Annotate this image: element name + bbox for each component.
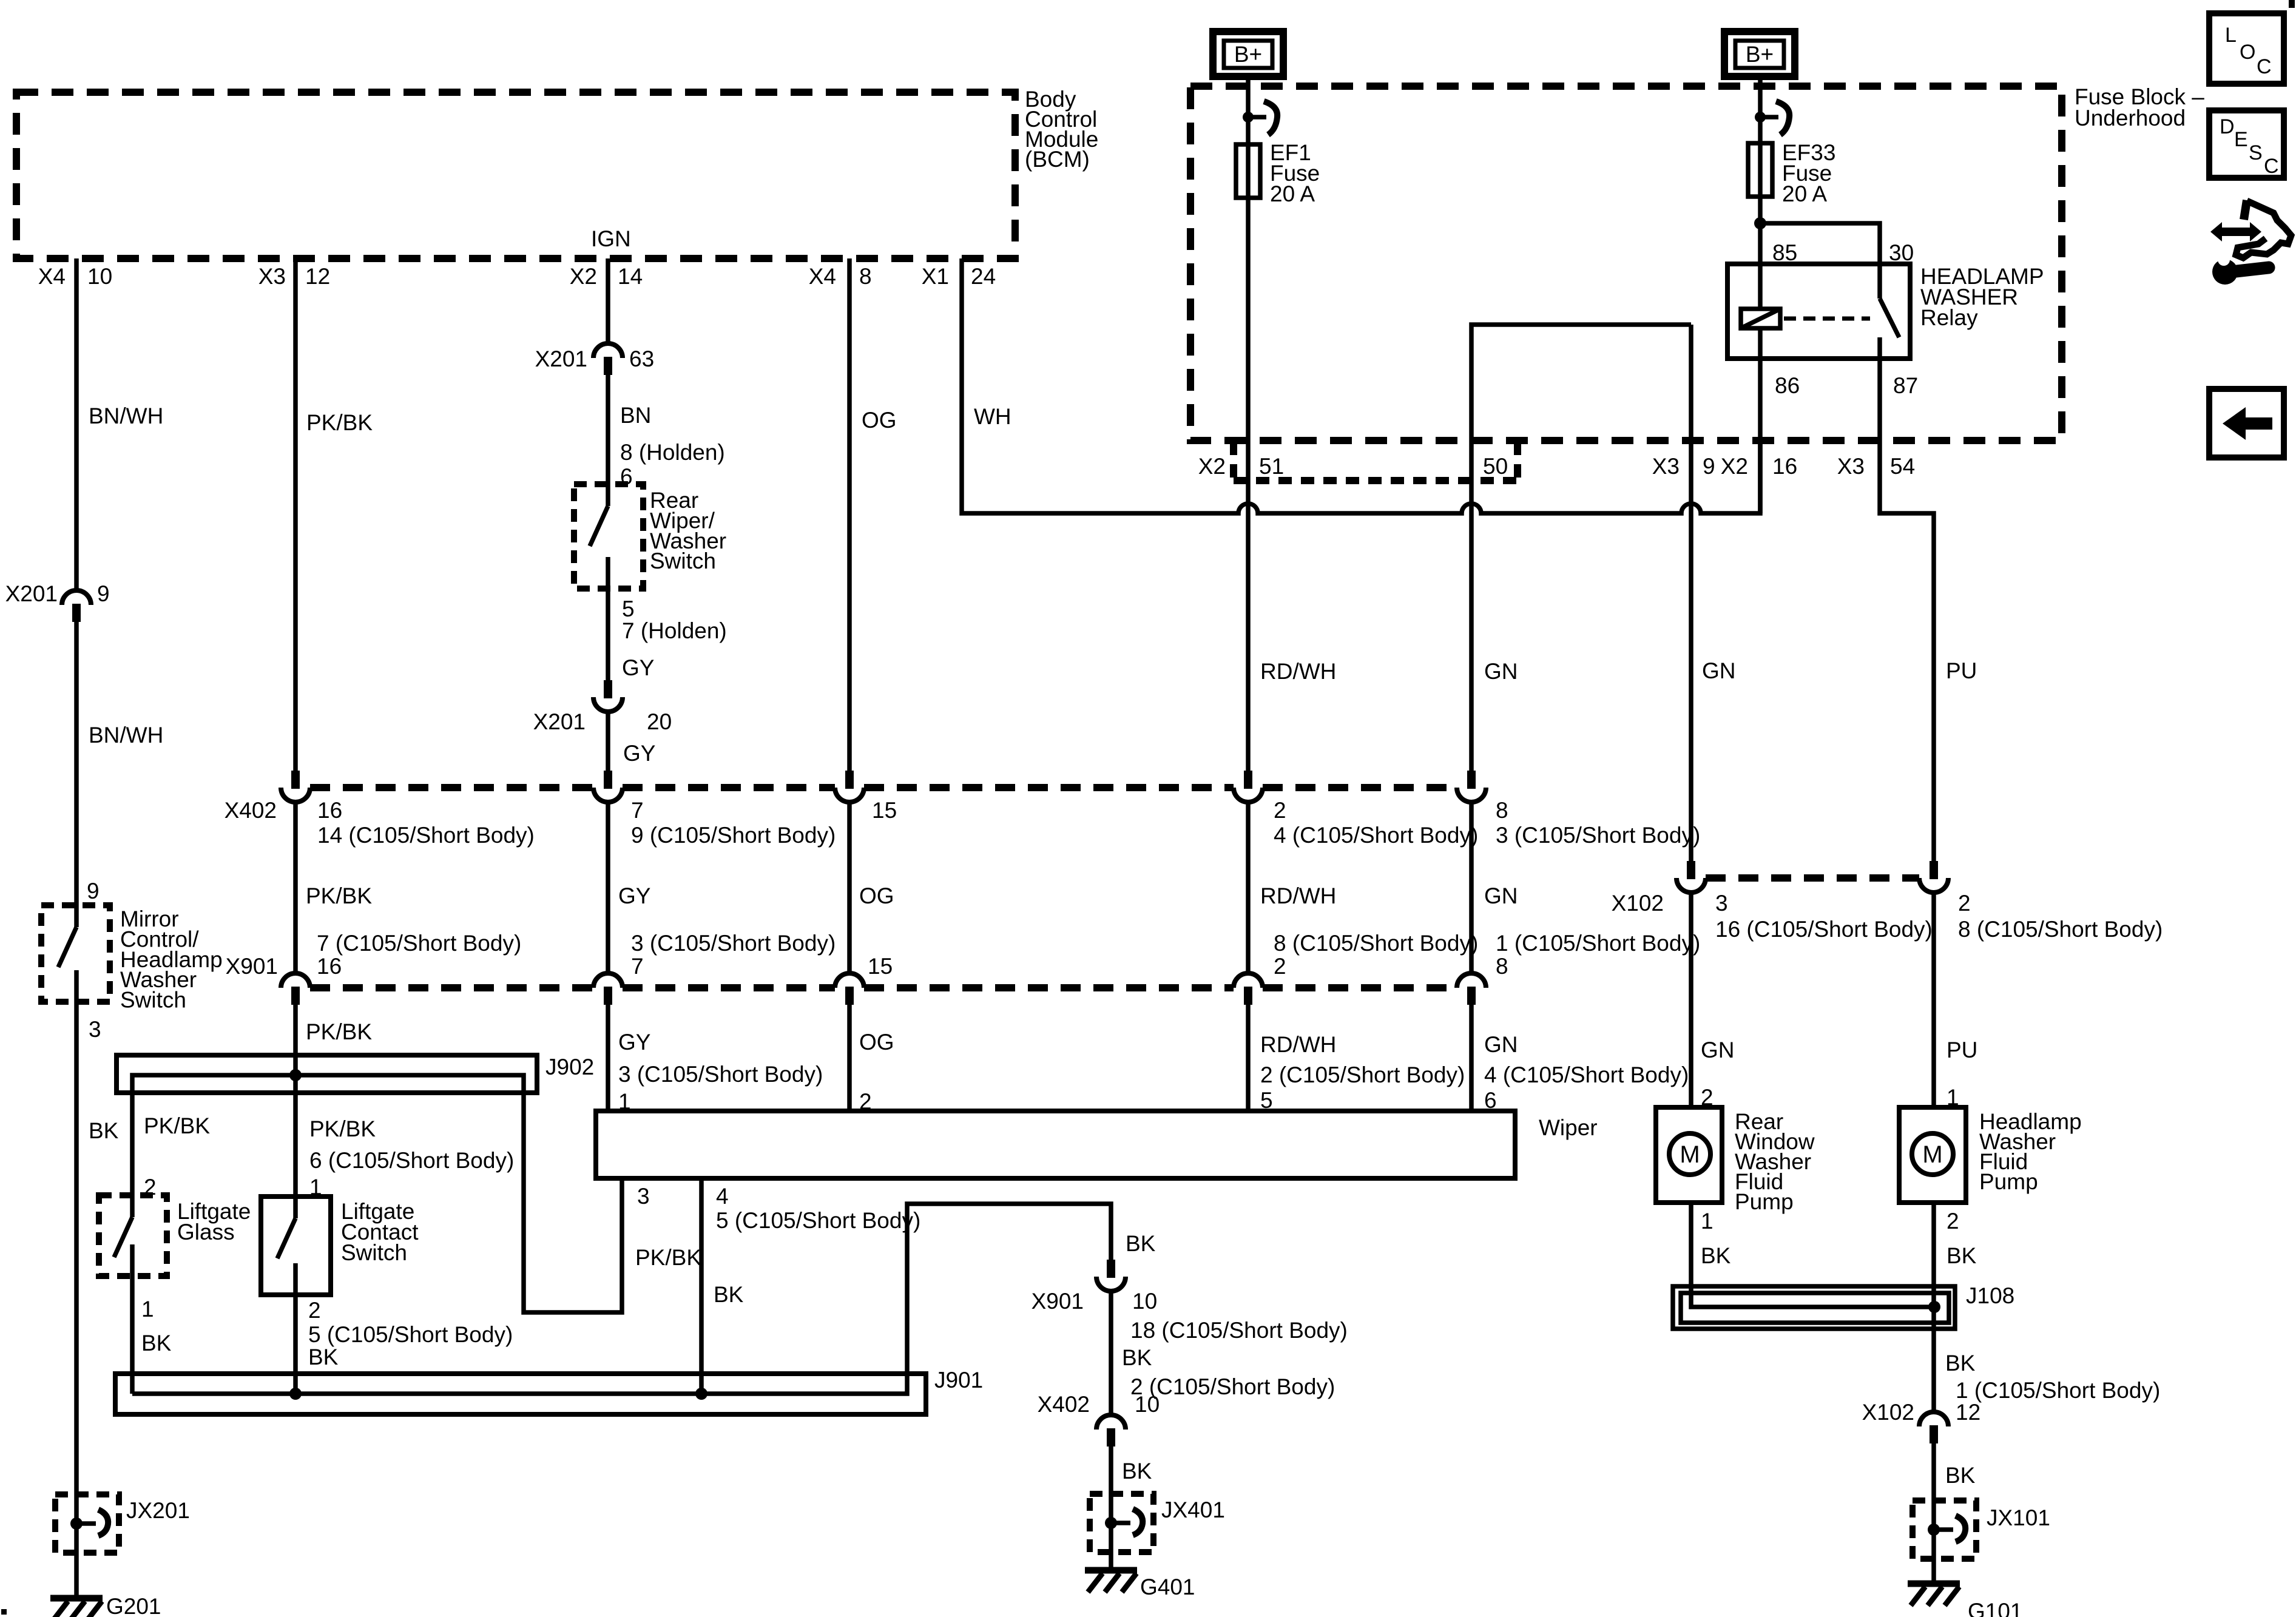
svg-text:Switch: Switch: [650, 549, 716, 573]
label X3 9: [1652, 454, 1715, 479]
svg-text:7 (Holden): 7 (Holden): [622, 618, 727, 643]
svg-text:4: 4: [716, 1184, 729, 1209]
svg-text:9: 9: [87, 879, 100, 903]
connector X901 pin 16: [281, 931, 521, 1005]
svg-text:G401: G401: [1140, 1575, 1195, 1599]
svg-text:5: 5: [622, 596, 635, 621]
ground G201: [50, 1594, 161, 1617]
power B+ terminal 2: [1724, 32, 1795, 76]
label 5 / 7 (Holden) / GY: [622, 596, 727, 680]
label X2 16: [1721, 454, 1797, 479]
relay pin 30: [1889, 240, 1914, 265]
svg-text:X2: X2: [1721, 454, 1748, 479]
svg-text:9: 9: [97, 581, 110, 606]
svg-text:16 (C105/Short Body): 16 (C105/Short Body): [1715, 917, 1933, 942]
label GN pump feed: [1702, 658, 1736, 683]
label BN/WH lower: [89, 723, 163, 748]
svg-text:Pump: Pump: [1735, 1189, 1794, 1214]
svg-text:3: 3: [637, 1184, 650, 1209]
svg-text:20 A: 20 A: [1270, 181, 1315, 206]
wire terminal 9 (X3) down: [1689, 325, 1693, 861]
svg-text:8 (Holden): 8 (Holden): [620, 440, 725, 465]
connector X901 pin 7: [593, 931, 836, 1005]
svg-text:9: 9: [1703, 454, 1715, 479]
svg-text:1: 1: [1701, 1209, 1714, 1234]
svg-text:2: 2: [1958, 891, 1971, 916]
connector X402 pin 7: [593, 771, 836, 848]
label PK/BK wiper pin3 branch: [635, 1245, 701, 1270]
wire BK X402-10 to G401: [1111, 1447, 1152, 1570]
svg-text:12: 12: [1956, 1400, 1980, 1425]
svg-text:J901: J901: [934, 1368, 983, 1393]
relay HEADLAMP WASHER Relay: [1727, 264, 2044, 359]
Fuse Block - Underhood dashed box: [1190, 84, 2204, 441]
wire 4 BCM X4-8 OG down: [847, 258, 852, 771]
svg-text:Glass: Glass: [177, 1220, 235, 1244]
svg-text:GN: GN: [1702, 658, 1736, 683]
svg-text:18 (C105/Short Body): 18 (C105/Short Body): [1130, 1318, 1348, 1343]
svg-text:Relay: Relay: [1920, 305, 1978, 330]
svg-text:GY: GY: [618, 883, 650, 908]
svg-text:BK: BK: [1122, 1459, 1152, 1484]
wire BK X901-10 to X402-10: [1111, 1291, 1335, 1415]
svg-text:5 (C105/Short Body): 5 (C105/Short Body): [308, 1322, 513, 1347]
connector X901 pin 10: [1032, 1260, 1348, 1343]
label PK/BK wire2: [306, 410, 373, 435]
svg-text:10: 10: [1132, 1289, 1157, 1314]
svg-text:X201: X201: [5, 581, 58, 606]
label GN upper: [1484, 659, 1518, 684]
wire B+1 to fuse EF1 and down to connector row: [1246, 76, 1251, 771]
svg-text:PK/BK: PK/BK: [306, 1019, 372, 1044]
svg-text:BK: BK: [1945, 1351, 1976, 1376]
fuse EF1 20 A: [1236, 140, 1320, 206]
label WH: [974, 404, 1011, 429]
junction node J901 wiper wire: [695, 1388, 707, 1400]
svg-text:OG: OG: [862, 408, 897, 433]
svg-text:Switch: Switch: [341, 1240, 407, 1265]
svg-text:X3: X3: [258, 264, 286, 289]
svg-text:X3: X3: [1652, 454, 1680, 479]
wire 1 BK to ground G201: [74, 1002, 79, 1598]
wire PU X102-2 to headlamp pump: [1934, 893, 1977, 1110]
wire GY X402-7 to X901-7: [608, 802, 650, 973]
icon LOC box: [2209, 13, 2284, 84]
junction node J108: [1928, 1301, 1940, 1313]
svg-text:X201: X201: [535, 346, 587, 371]
svg-text:D: D: [2220, 115, 2235, 138]
connector X102 pin 2: [1919, 861, 2163, 942]
label PK/BK contact branch: [309, 1116, 514, 1200]
motor Rear Window Washer Fluid Pump: [1656, 1107, 1815, 1214]
svg-text:PU: PU: [1947, 1038, 1977, 1062]
svg-text:OG: OG: [859, 883, 894, 908]
svg-text:PK/BK: PK/BK: [635, 1245, 701, 1270]
svg-text:G201: G201: [106, 1594, 161, 1617]
label GY: [623, 741, 655, 766]
svg-text:1 (C105/Short Body): 1 (C105/Short Body): [1956, 1378, 2160, 1403]
svg-text:X201: X201: [533, 709, 586, 734]
svg-text:24: 24: [971, 264, 996, 289]
wire 3 BN to rear wiper switch: [606, 375, 610, 484]
svg-text:3 (C105/Short Body): 3 (C105/Short Body): [631, 931, 836, 956]
svg-text:3: 3: [89, 1017, 101, 1042]
svg-text:86: 86: [1775, 373, 1800, 398]
label 50: [1483, 454, 1508, 479]
junction node EF33/relay-30 branch: [1754, 217, 1880, 264]
label 3 below mirror switch: [89, 1017, 101, 1042]
svg-text:RD/WH: RD/WH: [1260, 659, 1336, 684]
wire 1 BCM X4-10 BN/WH down: [74, 258, 79, 590]
splice pack J108: [1673, 1283, 2014, 1329]
svg-text:Wiper: Wiper: [1539, 1115, 1598, 1140]
label BN: [620, 403, 651, 428]
wiper pin 3 label: [637, 1184, 650, 1209]
svg-text:BK: BK: [714, 1282, 744, 1307]
svg-text:10: 10: [1135, 1392, 1160, 1417]
svg-text:E: E: [2234, 128, 2248, 151]
splice JX201: [55, 1494, 190, 1553]
relay pin 85: [1772, 240, 1797, 265]
svg-text:16: 16: [317, 954, 342, 979]
wire RD/WH X901-2 to wiper pin 5: [1248, 1005, 1465, 1113]
wire RD/WH X402-2 to X901-2: [1248, 802, 1336, 973]
svg-text:BK: BK: [1122, 1345, 1152, 1370]
label X1 24: [922, 264, 996, 289]
svg-text:4 (C105/Short Body): 4 (C105/Short Body): [1274, 823, 1478, 848]
connector X102 pin 12: [1862, 1400, 1981, 1443]
svg-text:8 (C105/Short Body): 8 (C105/Short Body): [1274, 931, 1478, 956]
svg-text:5 (C105/Short Body): 5 (C105/Short Body): [716, 1208, 920, 1233]
switch Liftgate Contact Switch: [261, 1197, 419, 1295]
svg-text:6 (C105/Short Body): 6 (C105/Short Body): [309, 1148, 514, 1173]
wiper pin 4 wire BK to J901: [701, 1178, 920, 1394]
icon back-arrow box: [2209, 389, 2284, 457]
svg-text:GY: GY: [623, 741, 655, 766]
label X3 12: [258, 264, 330, 289]
svg-text:WH: WH: [974, 404, 1011, 429]
svg-text:RD/WH: RD/WH: [1260, 883, 1336, 908]
svg-text:S: S: [2249, 141, 2263, 164]
Body Control Module (BCM) dashed box: [16, 87, 1098, 258]
svg-text:16: 16: [1772, 454, 1797, 479]
connector X402 pin 2: [1234, 771, 1478, 848]
connector X901 pin 15: [835, 954, 893, 1005]
svg-text:15: 15: [872, 798, 897, 823]
svg-text:OG: OG: [859, 1030, 894, 1055]
svg-text:X901: X901: [1032, 1289, 1084, 1314]
svg-text:X2: X2: [570, 264, 597, 289]
svg-text:BK: BK: [141, 1331, 172, 1355]
wire PK/BK X901-16 through J902 to liftgate contact switch: [295, 1005, 372, 1197]
wire BK X102-12 to G101: [1934, 1443, 1976, 1584]
svg-text:2: 2: [308, 1298, 321, 1323]
label X4 8: [809, 264, 872, 289]
svg-text:2: 2: [1274, 954, 1286, 979]
svg-text:7: 7: [631, 954, 644, 979]
label X3 54: [1837, 454, 1915, 479]
svg-text:GY: GY: [618, 1030, 650, 1055]
connector X201 pin 20: [533, 680, 672, 734]
motor Headlamp Washer Fluid Pump: [1899, 1107, 2082, 1203]
svg-text:X402: X402: [1038, 1392, 1090, 1417]
svg-text:GN: GN: [1701, 1038, 1735, 1062]
connector X901 pin 2: [1234, 931, 1478, 1005]
wire 5 BCM X1-24 WH to relay 86 (X2-16) with hops: [962, 258, 1760, 513]
wire OG X402-15 to X901-15: [849, 802, 894, 973]
switch Rear Wiper/Washer Switch: [574, 484, 726, 589]
wire GN X901-8 to wiper pin 6: [1471, 1005, 1689, 1113]
svg-text:14 (C105/Short Body): 14 (C105/Short Body): [317, 823, 535, 848]
svg-text:GN: GN: [1484, 1032, 1518, 1057]
wire 3 BCM X2-14 IGN BN down: [606, 258, 610, 343]
svg-text:BK: BK: [1701, 1243, 1731, 1268]
connector row X102 dashed line: [1706, 874, 1919, 882]
svg-text:JX201: JX201: [126, 1498, 190, 1523]
svg-text:PK/BK: PK/BK: [144, 1113, 210, 1138]
svg-text:Switch: Switch: [120, 988, 186, 1013]
svg-text:GY: GY: [622, 655, 654, 680]
label X2 14: [570, 264, 643, 289]
node IGN: [591, 226, 631, 251]
svg-text:GN: GN: [1484, 659, 1518, 684]
svg-text:J902: J902: [545, 1055, 594, 1079]
wire 3 switch to X201-20: [606, 589, 610, 680]
svg-text:54: 54: [1890, 454, 1915, 479]
svg-text:BN: BN: [620, 403, 651, 428]
svg-text:3: 3: [1715, 891, 1728, 916]
svg-text:PK/BK: PK/BK: [309, 1116, 376, 1141]
label BK below J108: [1945, 1351, 2160, 1403]
svg-text:X3: X3: [1837, 454, 1865, 479]
svg-text:20: 20: [647, 709, 672, 734]
power B+ terminal 1: [1213, 32, 1283, 76]
svg-text:7: 7: [631, 798, 644, 823]
svg-text:1 (C105/Short Body): 1 (C105/Short Body): [1496, 931, 1700, 956]
svg-text:O: O: [2240, 41, 2255, 64]
svg-text:C: C: [2264, 155, 2279, 178]
label OG: [862, 408, 897, 433]
svg-text:85: 85: [1772, 240, 1797, 265]
svg-text:BK: BK: [89, 1118, 119, 1143]
page mark top-right: [2289, 0, 2295, 8]
relay pin 87: [1893, 373, 1918, 398]
wire PK/BK X402-16 to X901-16: [295, 802, 372, 973]
svg-text:63: 63: [629, 346, 654, 371]
label 9 above mirror switch: [87, 879, 100, 903]
wiper motor module box: [596, 1111, 1598, 1178]
label X901: [226, 954, 278, 979]
svg-text:M: M: [1680, 1141, 1700, 1168]
ground G101: [1908, 1584, 2023, 1617]
svg-text:L: L: [2225, 24, 2237, 47]
wire relay 87 to X3 54 with jog: [1880, 359, 1934, 861]
connector X201 pin 9: [5, 581, 110, 622]
fuse clip junction on EF33 wire: [1755, 101, 1789, 135]
svg-text:BK: BK: [1126, 1231, 1156, 1256]
svg-text:X4: X4: [38, 264, 66, 289]
svg-text:M: M: [1922, 1141, 1942, 1168]
svg-text:12: 12: [305, 264, 330, 289]
connector X102 pin 3: [1612, 861, 1933, 942]
svg-text:2 (C105/Short Body): 2 (C105/Short Body): [1130, 1374, 1335, 1399]
wire 1 BN/WH to mirror switch: [74, 622, 79, 905]
svg-text:16: 16: [317, 798, 342, 823]
icon vehicle with wrench: [2210, 200, 2291, 285]
svg-text:87: 87: [1893, 373, 1918, 398]
svg-text:8 (C105/Short Body): 8 (C105/Short Body): [1958, 917, 2163, 942]
splice pack J902: [116, 1055, 622, 1312]
svg-text:C: C: [2257, 55, 2272, 78]
label X4 10: [38, 264, 112, 289]
wire fuse block internal terminal 50 to terminal 9: [1471, 325, 1691, 771]
svg-text:8: 8: [859, 264, 872, 289]
svg-text:50: 50: [1483, 454, 1508, 479]
svg-text:IGN: IGN: [591, 226, 631, 251]
svg-text:8: 8: [1496, 798, 1508, 823]
splice JX101: [1913, 1501, 2050, 1559]
svg-text:Pump: Pump: [1979, 1169, 2038, 1194]
page mark bottom-left: [1, 1609, 7, 1615]
connector X402 pin 16: [281, 771, 535, 848]
label BN/WH: [89, 403, 163, 428]
wire 3 GY to X402 row: [606, 712, 610, 771]
svg-text:X102: X102: [1862, 1400, 1914, 1425]
svg-text:GN: GN: [1484, 883, 1518, 908]
fuse clip junction on EF1 wire: [1243, 101, 1277, 135]
switch Mirror Control/Headlamp Washer Switch: [41, 905, 223, 1013]
svg-text:PK/BK: PK/BK: [306, 410, 373, 435]
junction node on J902: [289, 1069, 302, 1081]
wire BK liftgate glass to J901: [132, 1276, 172, 1394]
label PU pump feed: [1946, 658, 1977, 683]
svg-text:BN/WH: BN/WH: [89, 723, 163, 748]
wire GN X102-3 to rear pump: [1691, 893, 1735, 1110]
label RD/WH upper: [1260, 659, 1336, 684]
connector X901 pin 8: [1457, 931, 1700, 1005]
svg-text:X2: X2: [1198, 454, 1226, 479]
relay pin 86: [1775, 373, 1800, 398]
fuse EF33 20 A: [1748, 140, 1835, 206]
wire OG X901-15 to wiper pin 2: [849, 1005, 894, 1114]
wire BK headlamp pump through J108: [1934, 1203, 1977, 1412]
ground G401: [1085, 1570, 1195, 1599]
svg-text:BK: BK: [1945, 1463, 1976, 1488]
svg-text:20 A: 20 A: [1782, 181, 1827, 206]
label BK ground feed: [1126, 1231, 1156, 1256]
connector X201 pin 63: [535, 343, 655, 375]
splice pack J901: [115, 1204, 1111, 1414]
switch Liftgate Glass: [99, 1195, 251, 1276]
svg-text:JX401: JX401: [1161, 1497, 1225, 1522]
svg-text:1: 1: [141, 1297, 154, 1322]
svg-text:B+: B+: [1746, 42, 1774, 67]
svg-text:PU: PU: [1946, 658, 1977, 683]
svg-text:X402: X402: [225, 798, 277, 823]
connector X402 pin 15: [835, 771, 897, 823]
svg-text:(BCM): (BCM): [1025, 147, 1090, 172]
svg-text:4 (C105/Short Body): 4 (C105/Short Body): [1484, 1062, 1689, 1087]
svg-text:14: 14: [618, 264, 643, 289]
connector row X402 dashed line: [310, 784, 1457, 791]
svg-text:2 (C105/Short Body): 2 (C105/Short Body): [1260, 1062, 1465, 1087]
svg-text:BN/WH: BN/WH: [89, 403, 163, 428]
splice JX401: [1090, 1494, 1225, 1552]
wire B+2 to fuse EF33 and relay coil: [1758, 76, 1763, 513]
svg-text:3 (C105/Short Body): 3 (C105/Short Body): [1496, 823, 1700, 848]
svg-text:J108: J108: [1966, 1283, 2014, 1308]
svg-text:G101: G101: [1968, 1599, 2023, 1617]
wire GY X901-7 to wiper pin 1: [608, 1005, 823, 1114]
label BK wire1: [89, 1118, 119, 1143]
svg-text:RD/WH: RD/WH: [1260, 1032, 1336, 1057]
wire 2 BCM X3-12 PK/BK down: [293, 258, 298, 771]
svg-text:X102: X102: [1612, 891, 1664, 916]
svg-text:9 (C105/Short Body): 9 (C105/Short Body): [631, 823, 836, 848]
svg-text:B+: B+: [1234, 42, 1262, 67]
svg-text:2: 2: [1274, 798, 1286, 823]
svg-text:BK: BK: [308, 1345, 339, 1369]
wire GN X402-8 to X901-8: [1471, 802, 1518, 973]
wire BK liftgate contact to J901: [295, 1295, 513, 1394]
svg-text:PK/BK: PK/BK: [306, 883, 372, 908]
connector X402 pin 8: [1457, 771, 1700, 848]
label X402: [225, 798, 277, 823]
svg-text:2: 2: [1947, 1209, 1959, 1234]
svg-text:X901: X901: [226, 954, 278, 979]
svg-text:X4: X4: [809, 264, 836, 289]
svg-text:JX101: JX101: [1987, 1505, 2050, 1530]
svg-text:3 (C105/Short Body): 3 (C105/Short Body): [618, 1062, 823, 1087]
svg-text:BK: BK: [1947, 1243, 1977, 1268]
connector row X901 dashed line: [310, 984, 1457, 991]
icon DESC box: [2209, 110, 2284, 178]
label PK/BK liftgate glass branch: [144, 1113, 210, 1200]
connector X402 pin 10: [1038, 1392, 1160, 1447]
svg-text:X1: X1: [922, 264, 949, 289]
junction node J901 contact wire: [289, 1388, 302, 1400]
svg-text:10: 10: [87, 264, 112, 289]
svg-text:51: 51: [1259, 454, 1284, 479]
wire BK rear pump to J108: [1691, 1203, 1934, 1307]
svg-text:30: 30: [1889, 240, 1914, 265]
svg-text:15: 15: [868, 954, 893, 979]
svg-text:Underhood: Underhood: [2075, 106, 2186, 130]
connector bracket X2 (pins 51/50): [1234, 442, 1522, 481]
svg-text:8: 8: [1496, 954, 1508, 979]
label X2 51: [1198, 454, 1284, 479]
svg-text:7 (C105/Short Body): 7 (C105/Short Body): [317, 931, 521, 956]
label 8 (Holden) 6: [620, 440, 725, 489]
